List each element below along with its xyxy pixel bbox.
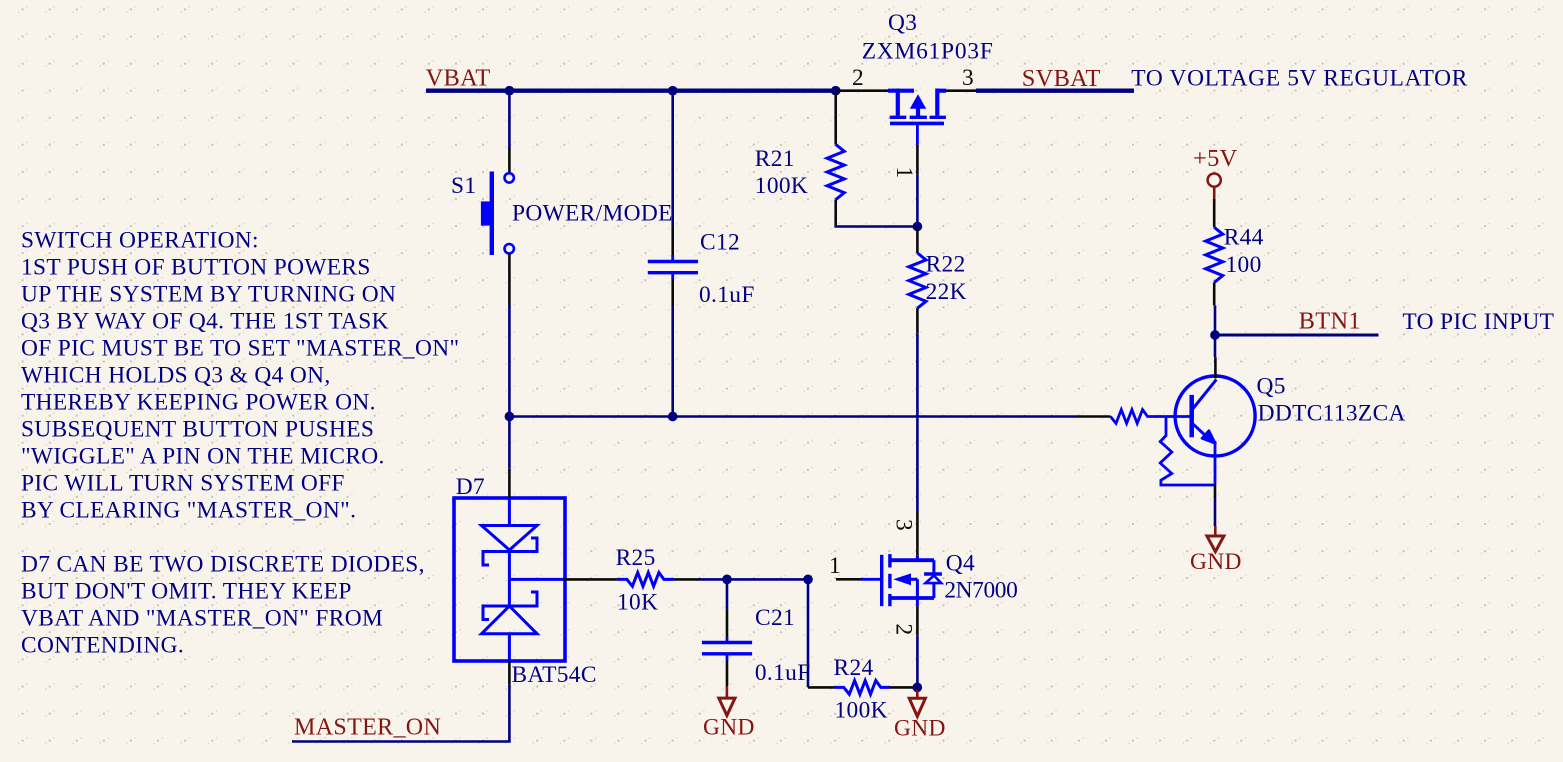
pin R44 pin1: [1213, 199, 1216, 227]
resistor R21: [827, 144, 844, 199]
resistor R24: [835, 681, 890, 695]
power port GND (Q4): [916, 690, 919, 698]
svg-text:22K: 22K: [926, 279, 967, 305]
svg-text:1: 1: [829, 553, 841, 579]
wire SVBAT: [976, 88, 1134, 92]
node junction VBAT/R21: [831, 86, 841, 96]
svg-text:TO PIC INPUT: TO PIC INPUT: [1402, 309, 1554, 335]
node junction BTN1: [1210, 330, 1220, 340]
svg-text:DDTC113ZCA: DDTC113ZCA: [1258, 401, 1406, 427]
pin S1 pin1: [508, 147, 511, 173]
transistor Q5 DDTC113ZCA: [1111, 410, 1192, 424]
capacitor C12: [671, 255, 674, 260]
pin Q3 pin2 stub: [836, 89, 888, 92]
pin R21 pin1: [834, 93, 837, 144]
svg-text:R22: R22: [926, 252, 966, 278]
svg-text:100K: 100K: [755, 173, 808, 199]
pin R22 pin2: [916, 308, 919, 333]
resistor R22: [909, 253, 926, 308]
svg-text:C21: C21: [755, 605, 795, 631]
wire base rail to Q5: [1077, 415, 1111, 418]
wire R24 branch: [807, 582, 810, 688]
svg-text:1: 1: [891, 166, 917, 178]
capacitor C21: [726, 637, 729, 641]
pin R21 pin2: [834, 200, 837, 226]
pin D7 top: [508, 469, 511, 498]
switch S1: [505, 173, 514, 182]
svg-text:3: 3: [891, 519, 917, 531]
wire C21 top: [726, 582, 729, 610]
resistor R44: [1206, 227, 1223, 282]
svg-text:2: 2: [852, 65, 864, 91]
pin R22 pin1: [916, 228, 919, 253]
wire R21 elbow: [836, 225, 918, 226]
pin C12 pin2: [671, 280, 674, 306]
power port GND (C21): [726, 686, 729, 698]
svg-text:Q3: Q3: [888, 10, 917, 36]
pin D7 pin3: [564, 578, 618, 581]
wire Q5 emitter to GND: [1214, 497, 1217, 526]
pin Q3 pin3 stub: [946, 89, 976, 92]
wire S1 top: [508, 93, 511, 147]
wire MASTER_ON: [292, 685, 509, 742]
wire BTN1: [1215, 334, 1379, 337]
svg-text:GND: GND: [894, 716, 946, 742]
wire VBAT bus: [426, 88, 836, 92]
node junction C21: [722, 575, 732, 585]
node junction C12/mid rail: [668, 412, 678, 422]
pin Q3 gate pin1: [916, 145, 919, 175]
wire C12 top: [671, 93, 674, 227]
pin S1 pin2: [508, 254, 511, 306]
svg-text:2: 2: [891, 623, 917, 635]
wire R22 to Q4 drain: [916, 333, 919, 511]
wire BTN1 node to Q5: [1214, 335, 1217, 357]
svg-text:R24: R24: [834, 655, 874, 681]
wire R25 to C21 node: [700, 578, 808, 581]
svg-text:3: 3: [962, 65, 974, 91]
pin Q5 collector: [1214, 357, 1217, 378]
wire C12 to mid rail: [671, 306, 674, 417]
node junction R21/R22/Q3gate: [913, 222, 923, 232]
node junction VBAT/S1: [505, 86, 515, 96]
pin Q5 emitter: [1214, 485, 1217, 498]
svg-text:Q4: Q4: [946, 550, 975, 576]
svg-text:0.1uF: 0.1uF: [699, 282, 755, 308]
svg-text:C12: C12: [700, 230, 740, 256]
svg-text:D7: D7: [456, 474, 485, 500]
svg-text:100: 100: [1226, 252, 1262, 278]
wire Q3 gate to node: [916, 175, 919, 227]
pin Q4 gate pin1: [836, 578, 862, 581]
svg-text:R44: R44: [1224, 225, 1264, 251]
svg-text:R25: R25: [616, 545, 656, 571]
node junction R24 branch: [803, 575, 813, 585]
transistor Q3 P-MOSFET: [888, 89, 914, 93]
svg-text:BTN1: BTN1: [1299, 308, 1361, 335]
node junction Q4source/R24: [912, 683, 922, 693]
wire Q4 source to GND node: [916, 635, 919, 687]
pin C12 pin1: [671, 227, 674, 257]
wire S1 to mid rail: [508, 305, 511, 469]
power port GND (Q5): [1214, 526, 1217, 536]
pin R24 pin2: [890, 686, 913, 689]
svg-text:BAT54C: BAT54C: [512, 662, 597, 688]
svg-text:0.1uF: 0.1uF: [755, 660, 811, 686]
svg-text:MASTER_ON: MASTER_ON: [294, 715, 441, 741]
pin R44 pin2: [1213, 283, 1216, 306]
node junction S1/mid rail: [505, 412, 515, 422]
wire R44 to BTN1 node: [1214, 305, 1217, 335]
resistor R25: [618, 573, 673, 587]
diode D7 BAT54C: [454, 498, 565, 661]
svg-text:10K: 10K: [617, 589, 658, 615]
svg-text:R21: R21: [755, 146, 795, 172]
pin Q4 source pin2: [916, 606, 919, 635]
svg-text:TO VOLTAGE 5V REGULATOR: TO VOLTAGE 5V REGULATOR: [1131, 66, 1468, 92]
svg-text:POWER/MODE: POWER/MODE: [512, 201, 673, 227]
svg-text:GND: GND: [1190, 549, 1242, 575]
svg-text:100K: 100K: [835, 697, 888, 723]
svg-text:VBAT: VBAT: [426, 65, 491, 92]
svg-text:SVBAT: SVBAT: [1022, 65, 1101, 92]
transistor Q4 N-MOSFET 2N7000: [862, 578, 881, 581]
svg-text:+5V: +5V: [1193, 145, 1238, 172]
svg-text:GND: GND: [703, 715, 755, 741]
svg-text:2N7000: 2N7000: [944, 577, 1017, 603]
pin R24 pin1: [808, 686, 835, 689]
svg-text:ZXM61P03F: ZXM61P03F: [862, 39, 994, 65]
pin C21 pin2: [726, 661, 729, 687]
pin C21 pin1: [726, 610, 729, 638]
svg-text:S1: S1: [451, 173, 476, 199]
node junction VBAT/C12: [668, 86, 678, 96]
wire mid rail: [509, 415, 1077, 418]
pin D7 bottom: [508, 661, 511, 685]
pin Q4 drain pin3: [916, 511, 919, 555]
svg-text:Q5: Q5: [1257, 374, 1286, 400]
pin R25 pin2: [673, 578, 700, 581]
